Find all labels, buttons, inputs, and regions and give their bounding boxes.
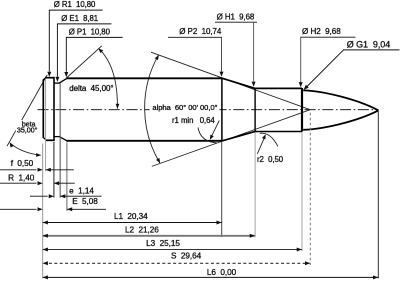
svg-text:L3 25,15: L3 25,15 — [146, 239, 180, 248]
dimension L1 — [43, 222, 222, 224]
rim top bevel — [43, 78, 46, 81]
svg-text:f 0,50: f 0,50 — [11, 159, 34, 168]
alpha angle arc — [145, 55, 160, 163]
label H1 leader — [215, 21, 257, 23]
delta angle construction line — [66, 46, 101, 78]
dimension L2 — [43, 235, 255, 237]
extension line groove cone end — [66, 143, 68, 211]
shoulder-neck junction vertical — [254, 88, 256, 132]
svg-text:S 29,64: S 29,64 — [171, 252, 202, 261]
rim right face — [53, 77, 55, 141]
svg-text:R 1,40: R 1,40 — [8, 173, 35, 182]
r2 radius arc — [260, 133, 278, 146]
groove cone bottom — [59, 137, 67, 141]
svg-text:L1 20,34: L1 20,34 — [114, 212, 148, 221]
svg-text:alpha 60° 00′ 00,0″: alpha 60° 00′ 00,0″ — [152, 103, 217, 112]
svg-text:Ø R1 10,80: Ø R1 10,80 — [54, 0, 96, 9]
neck top edge — [255, 87, 302, 89]
case body top edge — [66, 77, 222, 79]
label R1 leader — [49, 9, 103, 11]
svg-text:delta 45,00°: delta 45,00° — [69, 84, 113, 93]
centerline (axis) — [38, 109, 379, 111]
dimension E — [0, 208, 37, 210]
label P1 leader — [66, 36, 123, 38]
svg-text:Ø P1 10,80: Ø P1 10,80 — [69, 27, 111, 36]
bullet ogive bottom — [303, 110, 378, 129]
dimension f — [0, 169, 37, 171]
extension line rim bevel corner — [45, 79, 47, 172]
svg-text:Ø E1 8,81: Ø E1 8,81 — [61, 14, 98, 23]
r1 min leader — [211, 121, 220, 139]
extractor groove bottom — [54, 136, 60, 138]
svg-text:Ø H1 9,68: Ø H1 9,68 — [217, 13, 255, 22]
svg-text:L6 0,00: L6 0,00 — [207, 268, 237, 277]
rim left face — [42, 80, 44, 138]
extension line neck start — [254, 132, 256, 237]
neck bottom edge — [255, 131, 302, 133]
svg-text:e 1,14: e 1,14 — [69, 187, 94, 196]
r1 min radius arc — [198, 128, 217, 143]
extractor groove top — [54, 82, 60, 84]
case body bottom edge — [66, 140, 222, 142]
rim top edge — [45, 77, 55, 79]
label H2 leader — [300, 36, 355, 38]
svg-text:L2 21,26: L2 21,26 — [125, 226, 159, 235]
alpha cone upper construction ray — [151, 52, 310, 109]
beta angle arc — [10, 143, 40, 155]
svg-text:r1 min 0,64: r1 min 0,64 — [172, 116, 215, 125]
shoulder top edge — [222, 78, 255, 88]
svg-text:r2 0,50: r2 0,50 — [257, 155, 284, 164]
extension line bullet tip — [377, 111, 379, 278]
dimension L3 — [43, 249, 302, 251]
bullet ogive top — [303, 90, 378, 110]
svg-text:Ø P2 10,74: Ø P2 10,74 — [179, 27, 222, 36]
extension line rim right face — [53, 142, 55, 198]
extension line body end — [221, 142, 223, 238]
extension line cone apex (dashed) — [309, 113, 311, 265]
dimension L6 — [43, 276, 379, 278]
label E1 leader — [57, 23, 111, 25]
dimension R — [0, 182, 37, 184]
case mouth vertical — [301, 88, 303, 132]
alpha cone lower construction ray — [152, 110, 310, 167]
rim bottom bevel — [43, 137, 47, 140]
extension line groove end — [59, 83, 61, 197]
delta angle arc — [99, 49, 118, 109]
body-shoulder junction vertical — [221, 78, 223, 142]
alpha label background mask — [150, 102, 220, 112]
beta angle construction line (rim bevel extension) — [7, 75, 47, 146]
dimension e — [30, 195, 48, 197]
groove cone top — [59, 78, 67, 83]
extension line case mouth — [301, 132, 303, 251]
extension line base face — [42, 144, 44, 279]
beta label background mask — [16, 120, 39, 133]
svg-text:35,00°: 35,00° — [17, 125, 38, 134]
label P2 leader — [168, 36, 222, 38]
shoulder bottom edge — [222, 132, 255, 141]
svg-text:Ø G1 9,04: Ø G1 9,04 — [347, 39, 391, 49]
svg-text:Ø H2 9,68: Ø H2 9,68 — [302, 27, 341, 36]
label G1 leader — [343, 49, 400, 51]
rim bottom edge — [46, 139, 55, 141]
svg-text:E 5,08: E 5,08 — [72, 197, 98, 206]
dimension S (dashed) — [44, 262, 310, 264]
r2 leader — [257, 137, 265, 154]
